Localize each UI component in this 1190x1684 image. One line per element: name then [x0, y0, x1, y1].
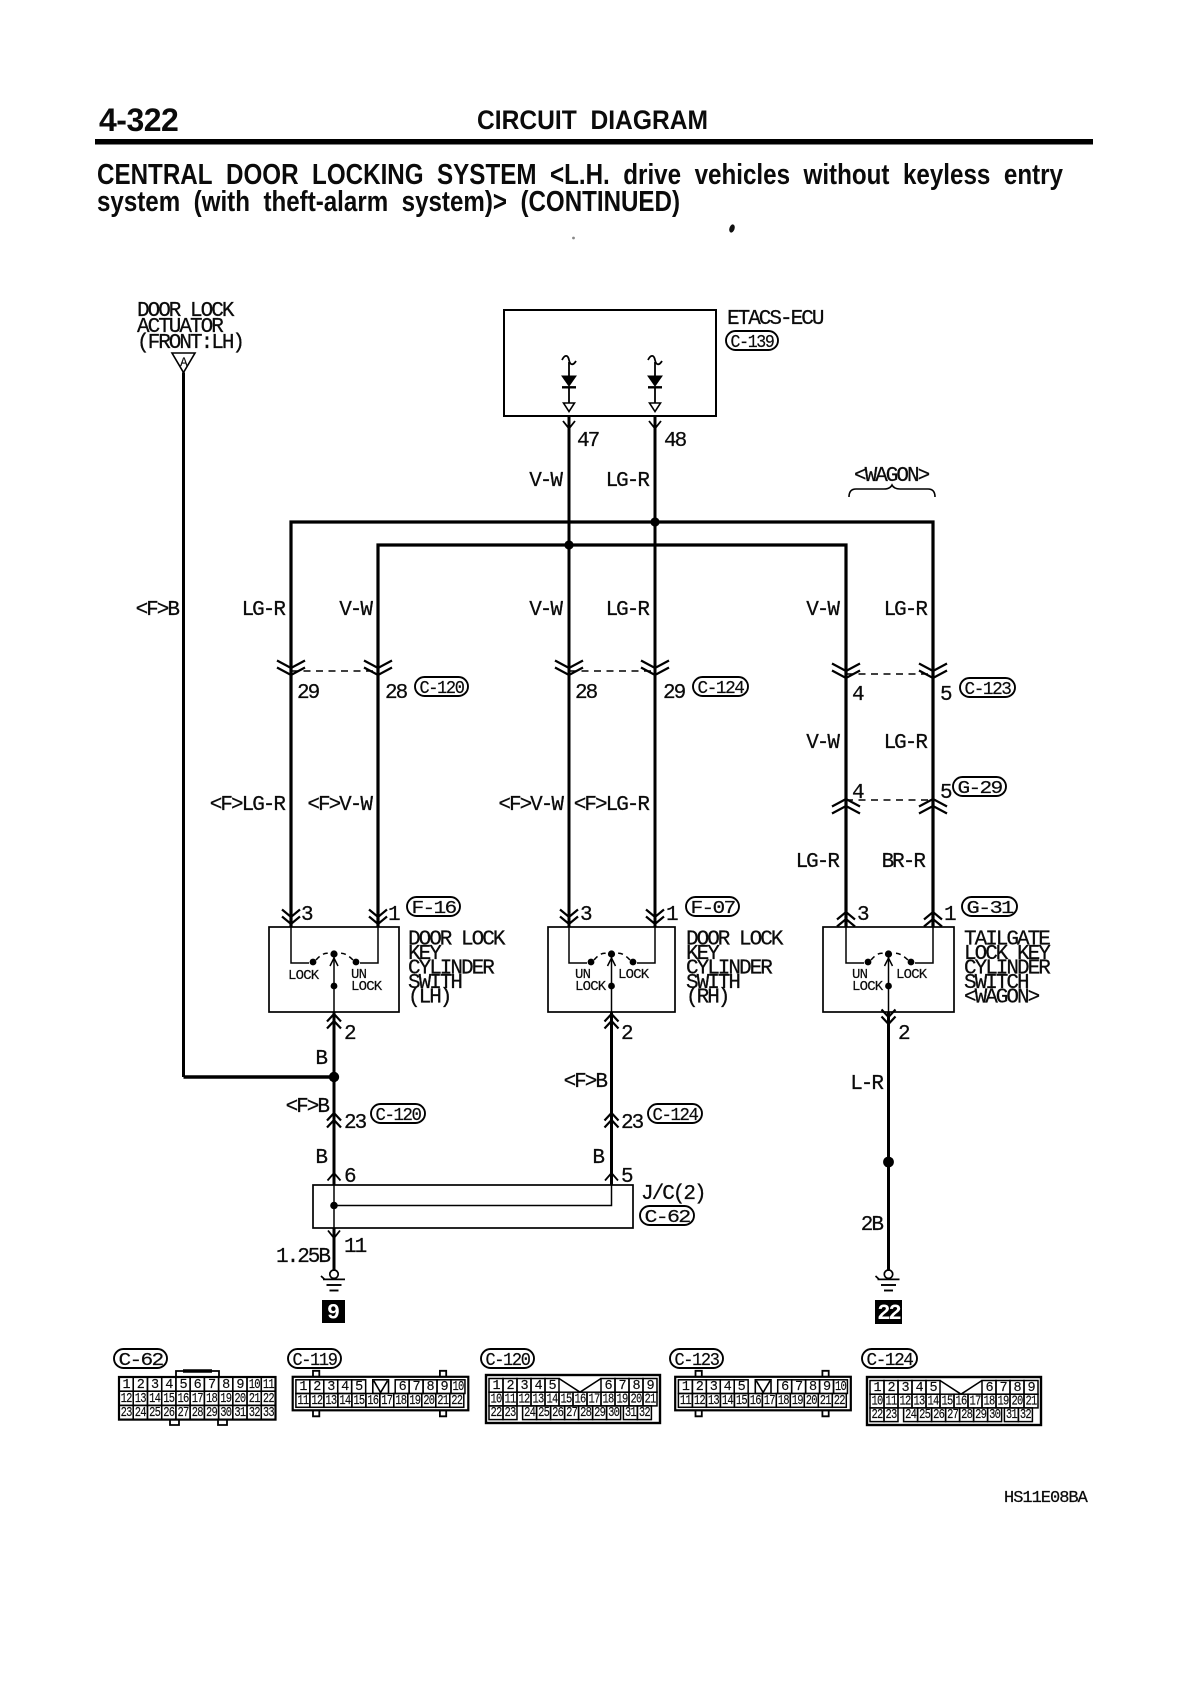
connector label C-123 [960, 678, 1015, 700]
connector C-120 pinout table [486, 1375, 660, 1423]
scan speck [728, 224, 736, 234]
svg-text:system (with theft-alarm syste: system (with theft-alarm system)> (CONTI… [97, 186, 680, 218]
svg-text:28: 28 [580, 1406, 592, 1421]
svg-text:9: 9 [327, 1301, 340, 1326]
connector label F-16 [407, 897, 460, 919]
svg-text:16: 16 [750, 1394, 762, 1409]
svg-text:18: 18 [395, 1394, 407, 1409]
svg-text:B: B [592, 1147, 604, 1170]
svg-text:C-124: C-124 [867, 1350, 914, 1371]
junction connector J/C(2) box [313, 1185, 633, 1228]
svg-text:2: 2 [621, 1023, 633, 1046]
svg-text:16: 16 [367, 1394, 379, 1409]
F-07 pin 3 arrow [560, 910, 578, 925]
connector label C-124 [862, 1349, 917, 1371]
connector C-120 pin 23 arrow [327, 1113, 341, 1128]
connector label C-123 [670, 1349, 723, 1371]
ground number 22 [875, 1300, 902, 1326]
svg-text:26: 26 [933, 1408, 945, 1423]
connector label G-31 [962, 897, 1017, 919]
svg-text:J/C(2): J/C(2) [641, 1183, 705, 1206]
svg-text:48: 48 [664, 430, 687, 453]
svg-text:11: 11 [297, 1394, 309, 1409]
svg-text:(RH): (RH) [686, 987, 728, 1010]
WAGON overbrace [849, 485, 935, 497]
svg-text:21: 21 [820, 1394, 832, 1409]
svg-text:V-W: V-W [806, 599, 840, 622]
bus wire LG-R (pin48 to left/right branches) [291, 522, 933, 927]
svg-text:22: 22 [877, 1301, 900, 1326]
svg-text:4-322: 4-322 [99, 102, 178, 138]
svg-text:32: 32 [249, 1406, 261, 1421]
svg-text:17: 17 [764, 1394, 776, 1409]
F-07 pin 2 wire [610, 1012, 613, 1185]
svg-text:G-31: G-31 [967, 898, 1015, 919]
svg-text:G-29: G-29 [958, 778, 1002, 799]
svg-text:24: 24 [524, 1406, 536, 1421]
svg-text:29: 29 [594, 1406, 606, 1421]
svg-text:28: 28 [385, 682, 408, 705]
svg-text:F-16: F-16 [412, 898, 456, 919]
svg-text:15: 15 [353, 1394, 365, 1409]
svg-text:<F>B: <F>B [136, 599, 180, 622]
svg-text:C-120: C-120 [420, 678, 464, 699]
svg-text:28: 28 [192, 1406, 204, 1421]
svg-text:LOCK: LOCK [351, 979, 383, 995]
F-07 pin 2 arrow [605, 1014, 619, 1029]
connector C-124 pin 28 arrow [555, 661, 583, 676]
svg-text:LG-R: LG-R [796, 851, 841, 874]
svg-text:2: 2 [344, 1023, 356, 1046]
svg-text:23: 23 [505, 1406, 517, 1421]
connector label C-119 [288, 1349, 341, 1371]
label DOOR LOCK ACTUATOR (FRONT:LH) [137, 300, 243, 355]
label DOOR LOCK KEY CYLINDER SWITH (RH) [686, 929, 784, 1010]
svg-text:C-124: C-124 [653, 1105, 699, 1126]
svg-text:12: 12 [311, 1394, 323, 1409]
connector label C-62 [114, 1349, 167, 1371]
G-31 pin 2 arrow [882, 1010, 896, 1025]
svg-text:C-123: C-123 [965, 679, 1011, 700]
svg-text:11: 11 [680, 1394, 692, 1409]
svg-text:11: 11 [344, 1236, 367, 1259]
svg-text:15: 15 [736, 1394, 748, 1409]
svg-text:30: 30 [989, 1408, 1001, 1423]
svg-text:(FRONT:LH): (FRONT:LH) [137, 332, 243, 355]
svg-text:CIRCUIT DIAGRAM: CIRCUIT DIAGRAM [477, 105, 708, 135]
connector C-120 dashed link [291, 670, 378, 672]
connector label G-29 [953, 777, 1006, 799]
ground symbol (left) [321, 1270, 345, 1291]
svg-text:17: 17 [381, 1394, 393, 1409]
svg-text:V-W: V-W [529, 599, 563, 622]
svg-text:<F>V-W: <F>V-W [307, 794, 373, 817]
svg-text:<F>V-W: <F>V-W [498, 794, 564, 817]
connector C-123 pinout table [675, 1371, 851, 1417]
svg-text:LOCK: LOCK [618, 967, 650, 983]
connector C-62 pinout table [119, 1371, 276, 1425]
svg-text:31: 31 [625, 1406, 637, 1421]
F-16 pin 2 wire [333, 1012, 336, 1185]
svg-text:19: 19 [409, 1394, 421, 1409]
wire V-W pin47 to F-07 pin 3 [568, 416, 571, 927]
junction node actuator/switch [329, 1072, 339, 1082]
J/C pin 6 arrow [328, 1173, 341, 1181]
svg-text:<WAGON>: <WAGON> [964, 987, 1040, 1010]
svg-text:32: 32 [1020, 1408, 1032, 1423]
junction node bus LG-R / pin48 [650, 517, 659, 526]
svg-text:C-139: C-139 [731, 332, 774, 353]
svg-text:22: 22 [451, 1394, 463, 1409]
svg-text:<F>LG-R: <F>LG-R [574, 794, 651, 817]
J/C pin 5 arrow [605, 1173, 618, 1181]
svg-text:C-120: C-120 [376, 1105, 421, 1126]
svg-text:29: 29 [206, 1406, 218, 1421]
connector C-119 pinout table [293, 1371, 469, 1417]
svg-text:14: 14 [339, 1394, 351, 1409]
svg-text:3: 3 [857, 904, 869, 927]
G-31 pin 3 arrow [837, 912, 855, 927]
svg-text:3: 3 [580, 904, 592, 927]
svg-text:C-124: C-124 [698, 678, 745, 699]
svg-text:3: 3 [301, 904, 313, 927]
svg-text:29: 29 [297, 682, 320, 705]
svg-text:<F>B: <F>B [564, 1071, 608, 1094]
svg-text:LG-R: LG-R [606, 470, 651, 493]
label DOOR LOCK KEY CYLINDER SWITH (LH) [408, 929, 506, 1010]
svg-text:LG-R: LG-R [884, 732, 929, 755]
svg-text:B: B [315, 1147, 327, 1170]
svg-text:V-W: V-W [529, 470, 563, 493]
svg-text:2B: 2B [861, 1214, 884, 1237]
svg-text:29: 29 [975, 1408, 987, 1423]
svg-text:31: 31 [1006, 1408, 1018, 1423]
svg-text:4: 4 [852, 782, 864, 805]
svg-text:27: 27 [947, 1408, 959, 1423]
svg-text:27: 27 [566, 1406, 578, 1421]
connector C-124 dashed link [569, 670, 655, 672]
svg-text:21: 21 [437, 1394, 449, 1409]
junction node bus V-W / pin47 [564, 540, 573, 549]
G-31 pin 2 wire [887, 1012, 890, 1271]
connector label C-120 [371, 1104, 425, 1126]
svg-text:LG-R: LG-R [884, 599, 929, 622]
svg-text:28: 28 [575, 682, 598, 705]
G-31 pin 1 arrow [924, 912, 942, 927]
svg-text:LOCK: LOCK [288, 968, 320, 984]
svg-text:HS11E08BA: HS11E08BA [1004, 1489, 1089, 1508]
connector C-124 pinout table [867, 1377, 1041, 1425]
diode (ETACS internal, pin 47) [562, 356, 576, 412]
svg-text:24: 24 [905, 1408, 917, 1423]
F-16 pin 2 arrow [327, 1014, 341, 1029]
ETACS-ECU box [504, 310, 716, 416]
svg-text:28: 28 [961, 1408, 973, 1423]
svg-text:B: B [315, 1048, 327, 1071]
svg-text:47: 47 [577, 430, 599, 453]
svg-text:23: 23 [886, 1408, 898, 1423]
bus wire V-W (pin47 to left/right branches) [378, 545, 846, 927]
svg-text:V-W: V-W [339, 599, 373, 622]
switch F-07 DOOR LOCK KEY CYLINDER SWITH (RH) [548, 927, 675, 1012]
ground number 9 [322, 1300, 345, 1326]
F-16 pin 1 arrow [369, 910, 387, 925]
connector label C-120 [481, 1349, 534, 1371]
svg-text:27: 27 [178, 1406, 190, 1421]
svg-text:5: 5 [940, 684, 952, 707]
svg-text:C-62: C-62 [645, 1207, 690, 1228]
F-16 pin 3 arrow [282, 910, 300, 925]
svg-text:33: 33 [263, 1406, 275, 1421]
svg-text:1: 1 [944, 904, 956, 927]
connector C-123 pin 4 arrow [832, 664, 860, 679]
J/C internal junction node [330, 1202, 338, 1210]
svg-text:1: 1 [388, 904, 400, 927]
svg-text:1.25B: 1.25B [276, 1246, 330, 1269]
connector G-29 pin 4 arrow [832, 799, 860, 814]
switch F-16 DOOR LOCK KEY CYLINDER SWITH (LH) [269, 927, 399, 1012]
connector label C-62 [640, 1206, 694, 1228]
diode (ETACS internal, pin 48) [648, 356, 662, 412]
svg-text:L-R: L-R [850, 1073, 884, 1096]
svg-text:LG-R: LG-R [242, 599, 287, 622]
J/C internal wire pin5 to bus [334, 1185, 612, 1206]
J/C internal wire pin6 through [333, 1185, 335, 1228]
label TAILGATE LOCK KEY CYLINDER SWITCH (WAGON) [964, 929, 1051, 1010]
ground symbol (right) [876, 1270, 900, 1291]
svg-text:20: 20 [423, 1394, 435, 1409]
wire <F>B actuator down [182, 373, 185, 1078]
connector G-29 dashed link [846, 799, 933, 801]
svg-text:C-62: C-62 [119, 1350, 163, 1371]
svg-text:13: 13 [708, 1394, 720, 1409]
svg-text:(LH): (LH) [408, 987, 450, 1010]
svg-text:26: 26 [163, 1406, 175, 1421]
svg-text:5: 5 [940, 782, 952, 805]
connector C-123 dashed link [846, 673, 933, 675]
pin 47 terminal [563, 421, 575, 437]
connector C-124 pin 23 arrow [605, 1113, 619, 1128]
svg-text:<F>B: <F>B [286, 1096, 330, 1119]
svg-text:LOCK: LOCK [575, 979, 607, 995]
splice node [883, 1157, 894, 1168]
svg-text:29: 29 [663, 682, 686, 705]
svg-text:22: 22 [872, 1408, 884, 1423]
F-07 pin 1 arrow [646, 910, 664, 925]
svg-text:13: 13 [325, 1394, 337, 1409]
wire LG-R pin48 to F-07 pin 1 [654, 416, 657, 927]
pin 48 terminal [649, 421, 661, 437]
wire <F>B actuator horizontal to junction [184, 1075, 335, 1078]
svg-text:2: 2 [898, 1023, 910, 1046]
connector label C-120 [415, 677, 468, 699]
svg-text:25: 25 [538, 1406, 550, 1421]
connector C-120 pin 28 arrow [364, 661, 392, 676]
svg-text:23: 23 [121, 1406, 133, 1421]
svg-text:1: 1 [666, 904, 678, 927]
svg-text:BR-R: BR-R [882, 851, 927, 874]
svg-text:LOCK: LOCK [852, 979, 884, 995]
svg-text:25: 25 [919, 1408, 931, 1423]
svg-text:<F>LG-R: <F>LG-R [210, 794, 287, 817]
svg-text:26: 26 [552, 1406, 564, 1421]
connector label F-07 [686, 897, 739, 919]
svg-text:14: 14 [722, 1394, 734, 1409]
actuator terminal triangle A [172, 353, 195, 373]
connector C-120 pin 29 arrow [277, 661, 305, 676]
svg-text:22: 22 [834, 1394, 846, 1409]
svg-text:22: 22 [491, 1406, 503, 1421]
header rule [95, 139, 1093, 145]
connector G-29 pin 5 arrow [919, 799, 947, 814]
svg-text:C-123: C-123 [675, 1350, 719, 1371]
svg-text:ETACS-ECU: ETACS-ECU [727, 308, 824, 331]
connector label C-139 [726, 331, 778, 353]
svg-text:25: 25 [149, 1406, 161, 1421]
svg-text:LOCK: LOCK [896, 967, 928, 983]
svg-text:23: 23 [621, 1112, 644, 1135]
connector C-123 pin 5 arrow [919, 664, 947, 679]
svg-text:24: 24 [135, 1406, 147, 1421]
wire 1.25B to ground [333, 1228, 336, 1271]
switch G-31 TAILGATE LOCK KEY CYLINDER SWITCH (WAGON) [823, 927, 954, 1012]
svg-text:32: 32 [639, 1406, 651, 1421]
svg-text:F-07: F-07 [691, 898, 735, 919]
connector label C-124 [693, 677, 748, 699]
connector C-124 pin 29 arrow [641, 661, 669, 676]
svg-text:20: 20 [806, 1394, 818, 1409]
svg-text:4: 4 [852, 684, 864, 707]
svg-text:30: 30 [608, 1406, 620, 1421]
svg-text:23: 23 [344, 1112, 367, 1135]
svg-text:12: 12 [694, 1394, 706, 1409]
svg-text:LG-R: LG-R [606, 599, 651, 622]
svg-text:C-119: C-119 [293, 1350, 337, 1371]
svg-text:18: 18 [778, 1394, 790, 1409]
connector label C-124 [648, 1104, 702, 1126]
J/C pin 11 terminal [328, 1231, 340, 1247]
svg-text:C-120: C-120 [486, 1350, 530, 1371]
svg-text:19: 19 [792, 1394, 804, 1409]
svg-text:31: 31 [234, 1406, 246, 1421]
svg-text:30: 30 [220, 1406, 232, 1421]
svg-text:V-W: V-W [806, 732, 840, 755]
